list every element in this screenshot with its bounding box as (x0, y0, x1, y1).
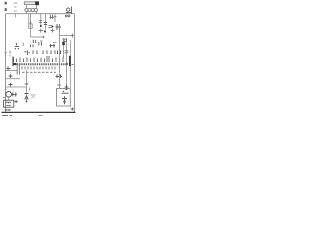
tick on left border y53 (4, 52, 7, 54)
border frame left (5, 14, 7, 112)
resistor R8 band (33, 51, 37, 55)
node label R left (5, 8, 7, 11)
bottom border bar (2, 111, 76, 113)
label dash band (53, 42, 57, 44)
wire drop x56 (54, 14, 56, 22)
meter M1 circle bottom-left (6, 92, 12, 98)
wire vertical F (16, 64, 18, 75)
sensor tick x10 (9, 51, 11, 55)
wire vertical K right-low (59, 24, 61, 89)
wire vertical G (18, 64, 20, 75)
fuse F2 dark blob (62, 42, 65, 45)
switch S3 on left border (9, 83, 13, 87)
wire horizontal to node B (31, 36, 45, 38)
contact K2a tick on wire J (25, 83, 29, 85)
U1 arrow (63, 101, 65, 105)
capacitor C6 band (39, 41, 43, 46)
resistor R9 band (43, 51, 47, 55)
terminal strip X1 ticks (14, 56, 64, 62)
wire vertical C (45, 14, 47, 30)
wire horizontal H (6, 78, 21, 80)
resistor R5 band (15, 43, 19, 46)
top bus rail (6, 13, 75, 15)
junction node E (52, 26, 54, 28)
terminal strip X1 label row (13, 63, 69, 65)
node label S top-left (5, 2, 7, 5)
junction dot on wire y37 (43, 36, 45, 38)
capacitor C8 right-low ticks (56, 75, 63, 79)
U1 pin dot (66, 88, 68, 90)
capacitor C4 right-upper (60, 35, 75, 37)
label 52 left of circle (3, 97, 5, 99)
contact tick on wire K (57, 84, 61, 86)
resistor R13 band (24, 50, 30, 55)
stub below rail x15 (15, 14, 17, 18)
capacitor C10 band (50, 44, 56, 48)
contact ticks on wire D (65, 51, 69, 53)
U1 dash (62, 92, 69, 94)
capacitor C2 on wire C (44, 23, 47, 25)
ground marks above bottom bar (5, 109, 12, 111)
dark label left end (13, 63, 17, 65)
switch S1 on left border (7, 67, 11, 71)
junction node C (44, 31, 46, 33)
U1 plus symbol (62, 96, 67, 100)
contact cross right of G1 (15, 100, 18, 103)
diode D1 cluster (49, 15, 56, 20)
control unit U1 box bottom-right (57, 89, 71, 107)
wire vertical B (40, 14, 42, 27)
wire meter stem (8, 97, 10, 100)
junction node D (26, 101, 28, 103)
resistor R14 band (58, 51, 61, 55)
wire vertical E right (70, 40, 72, 88)
switch S2 on left border (9, 75, 13, 79)
capacitor C9 marks (49, 26, 53, 28)
tick near x23 (22, 43, 24, 47)
wire from S1 (6, 70, 18, 72)
stub tick x29 (29, 88, 31, 91)
fuse F1 dark mark right of strip (69, 56, 71, 66)
resistor R7 band (31, 45, 33, 48)
label text bottom-center (31, 95, 36, 97)
wire vertical D right (66, 38, 68, 88)
capacitor C1 on wire B (39, 21, 42, 23)
contactor K2 arrow on wire J (25, 94, 29, 100)
relay K1 top-right (66, 7, 72, 14)
transformer T1 core dark block (35, 1, 39, 5)
wire T1 leads (27, 5, 37, 9)
lamp H1 (64, 39, 67, 42)
battery BT1 marks right-bottom (71, 108, 74, 111)
capacitor C3 right-upper (56, 24, 62, 30)
junction node B (40, 25, 42, 27)
transformer T1 secondary coils (25, 8, 38, 11)
wire vertical J center-low (26, 70, 28, 102)
tick on wire y35 (71, 34, 73, 38)
connector pins below rail right (65, 15, 69, 17)
G1 inner winding (6, 102, 11, 105)
resistor R10 right of band (63, 38, 65, 58)
resistor R4 marks (51, 29, 55, 33)
label text near x15 (14, 3, 18, 11)
wire vertical A upper-left (30, 14, 32, 37)
wire horizontal I (6, 86, 27, 88)
wire coil to rail (27, 12, 37, 14)
resistor R11 right-low (65, 85, 69, 89)
border frame right (74, 14, 76, 112)
resistor R3 marks (39, 29, 44, 33)
sensor B1 bottom-left ticks (12, 92, 17, 96)
capacitor C7 band (51, 51, 55, 55)
transformer T1 primary bar (24, 2, 38, 5)
terminal row X2 ticks (22, 67, 55, 70)
power supply G1 box bottom-left (4, 100, 14, 107)
resistor R2 on wire A (29, 24, 32, 28)
wire vertical A2 parallel (28, 14, 30, 24)
terminal strip X1 left post (12, 57, 14, 67)
terminal row X3 dashes (22, 71, 56, 73)
capacitor C5 band (33, 40, 35, 43)
title text TMRT bottom-left (2, 115, 43, 117)
junction above R2 (30, 22, 31, 23)
